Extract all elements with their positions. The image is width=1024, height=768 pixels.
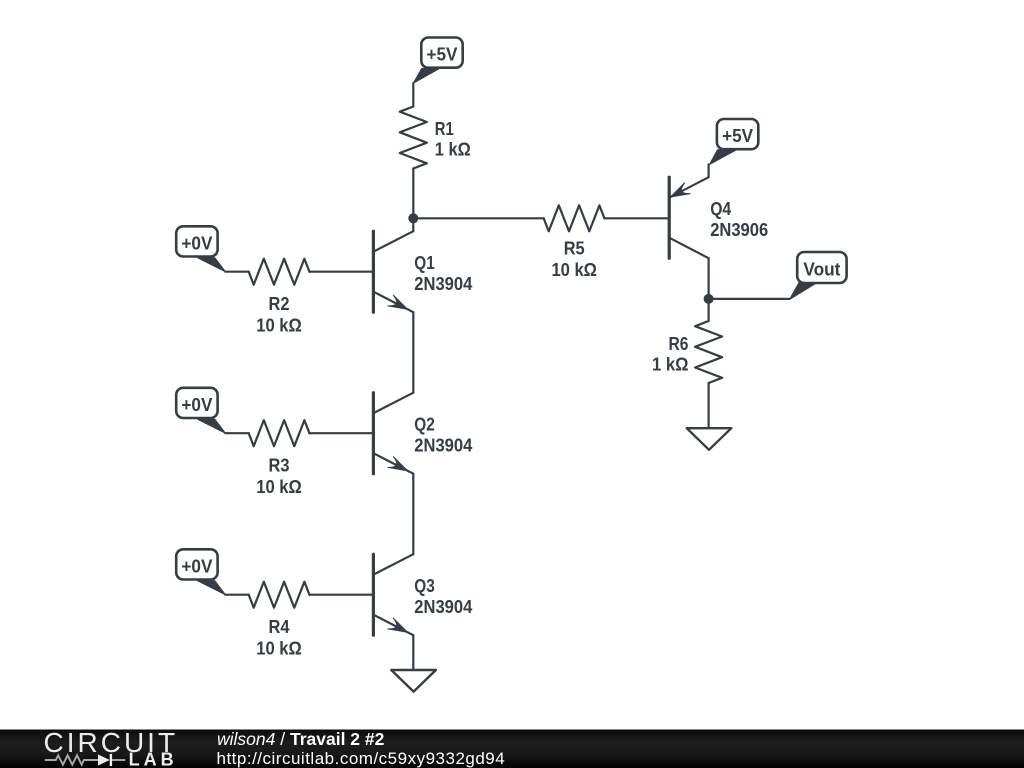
- node A junction dot: [408, 213, 418, 223]
- transistor Q2 base bar: [372, 393, 375, 474]
- wire node B to Vout flag: [709, 298, 790, 300]
- transistor Q3 emitter with arrow: [373, 615, 413, 636]
- wire R3 to Q2 base: [309, 432, 373, 434]
- power flag +0V (input 1): [198, 258, 226, 272]
- svg-text:10 kΩ: 10 kΩ: [256, 315, 302, 335]
- transistor Q3 collector: [373, 554, 413, 575]
- svg-text:10 kΩ: 10 kΩ: [551, 260, 597, 280]
- svg-text:1 kΩ: 1 kΩ: [652, 355, 689, 375]
- wire R4 to Q3 base: [309, 594, 373, 596]
- logo resistor zigzag + lead wires: [45, 755, 126, 764]
- svg-text:R1: R1: [435, 119, 454, 139]
- wire R5 to Q4 base: [604, 217, 669, 219]
- power flag +5V (Q4 emitter): [710, 150, 737, 165]
- svg-text:+0V: +0V: [181, 234, 212, 254]
- wire +0V flag to R4: [225, 594, 248, 596]
- wire +0V flag to R2: [225, 271, 248, 273]
- svg-text:1 kΩ: 1 kΩ: [435, 140, 471, 160]
- power flag +5V (net V1): [413, 68, 439, 83]
- svg-text:R5: R5: [564, 238, 585, 258]
- svg-text:LAB: LAB: [129, 750, 178, 768]
- wire Q3 emitter to ground: [412, 635, 414, 670]
- svg-text:+0V: +0V: [181, 557, 212, 577]
- transistor Q1 emitter with arrow: [373, 292, 413, 313]
- svg-text:R3: R3: [269, 455, 290, 475]
- resistor R3 body: [249, 420, 310, 446]
- power flag +0V (input 2): [198, 419, 226, 433]
- wire node A to R5: [413, 217, 543, 219]
- transistor Q2 emitter with arrow: [373, 453, 413, 474]
- transistor Q1 collector: [373, 231, 413, 252]
- svg-text:Q1: Q1: [414, 253, 435, 273]
- svg-text:R2: R2: [269, 294, 290, 314]
- output flag Vout: [790, 282, 819, 300]
- svg-text:10 kΩ: 10 kΩ: [256, 638, 302, 658]
- transistor Q1 base bar: [372, 231, 375, 312]
- svg-text:Q4: Q4: [710, 199, 731, 219]
- transistor Q4 base bar: [668, 177, 671, 258]
- resistor R4 body: [249, 582, 310, 608]
- wire R1 to node A: [412, 169, 414, 232]
- logo diode symbol: [98, 754, 110, 765]
- svg-text:Q3: Q3: [414, 576, 435, 596]
- resistor R5 body: [544, 205, 605, 231]
- resistor R6 body: [695, 321, 722, 383]
- transistor Q4 collector: [669, 238, 708, 259]
- wire Q1 emitter to Q2 collector: [412, 312, 414, 393]
- svg-text:wilson4 / Travail 2 #2: wilson4 / Travail 2 #2: [217, 729, 385, 749]
- transistor Q4 emitter with arrow: [669, 177, 708, 198]
- resistor R2 body: [249, 259, 310, 285]
- wire R6 to ground: [707, 383, 709, 428]
- svg-text:+0V: +0V: [181, 395, 212, 415]
- resistor R1 body: [400, 107, 427, 169]
- svg-text:+5V: +5V: [427, 45, 458, 65]
- wire Q4 collector to node B: [707, 258, 709, 321]
- svg-text:http://circuitlab.com/c59xy933: http://circuitlab.com/c59xy9332gd94: [217, 749, 506, 768]
- svg-text:2N3906: 2N3906: [710, 220, 768, 240]
- svg-text:10 kΩ: 10 kΩ: [256, 477, 302, 497]
- wire Q2 emitter to Q3 collector: [412, 474, 414, 555]
- wire +0V flag to R3: [225, 432, 248, 434]
- svg-text:+5V: +5V: [722, 126, 753, 146]
- footer bar background: [0, 730, 1024, 768]
- ground symbol (Q3 emitter): [391, 670, 436, 692]
- svg-text:R4: R4: [269, 617, 290, 637]
- power flag +0V (input 3): [198, 581, 226, 595]
- wire R2 to Q1 base: [309, 271, 373, 273]
- svg-text:2N3904: 2N3904: [414, 597, 472, 617]
- svg-text:2N3904: 2N3904: [414, 436, 472, 456]
- wire +5V flag to Q4 emitter: [707, 164, 709, 177]
- svg-text:Q2: Q2: [414, 415, 435, 435]
- node B junction dot (Vout): [704, 294, 714, 304]
- svg-text:R6: R6: [669, 334, 689, 354]
- transistor Q3 base bar: [372, 554, 375, 635]
- wire +5V flag to R1: [412, 83, 414, 106]
- svg-text:Vout: Vout: [803, 260, 840, 280]
- transistor Q2 collector: [373, 393, 413, 414]
- ground symbol (R6): [687, 428, 732, 450]
- svg-text:2N3904: 2N3904: [414, 274, 472, 294]
